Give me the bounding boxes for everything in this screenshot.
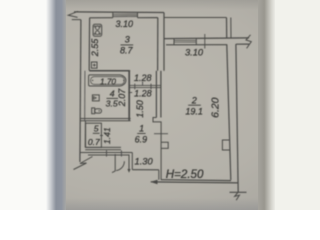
leader tick below 1.28 (142, 82, 144, 86)
svg-text:1.28: 1.28 (134, 73, 152, 83)
wall: room5 bottom lower line (85, 149, 121, 151)
svg-text:2.07: 2.07 (117, 88, 127, 108)
wall: room5 left inner (84, 121, 86, 148)
window room2 jamb right (195, 39, 197, 45)
svg-text:1.30: 1.30 (135, 157, 154, 167)
white margin and dark page-edge band left (0, 0, 48, 210)
svg-text:3: 3 (125, 35, 130, 45)
bathtub (89, 75, 126, 86)
svg-text:3.10: 3.10 (185, 47, 204, 57)
break symbol bottom-left (74, 157, 93, 170)
entrance door leaf foot (112, 171, 115, 173)
room 2 fraction bar (188, 104, 201, 106)
kitchen sink (91, 62, 97, 68)
dimension tick right of room2 window (204, 34, 206, 49)
wall: top exterior outer line of kitchen (74, 11, 164, 14)
wall: room2 right inner line (227, 45, 231, 180)
break symbol top-left (68, 11, 78, 17)
wall: hall south upper line (80, 152, 132, 154)
wall: corridor divider at 1.28 (130, 84, 161, 86)
svg-text:19.1: 19.1 (185, 106, 203, 116)
stove (93, 24, 102, 36)
svg-text:1.50: 1.50 (135, 100, 145, 118)
wall: room2 top outer line (164, 37, 249, 40)
wall: bottom outer line with H leader (151, 182, 238, 183)
balcony right second line (230, 18, 232, 39)
svg-text:5: 5 (94, 124, 99, 134)
wall: bathroom bottom upper line (80, 118, 130, 120)
wall: room5 bottom upper line (85, 146, 121, 148)
wall: bathroom right (128, 71, 130, 121)
wall: left inner line bathroom section (84, 71, 86, 121)
toilet (92, 108, 102, 114)
break symbol bottom-right (230, 191, 247, 193)
washbasin (92, 95, 99, 101)
entrance door leaf (114, 154, 116, 171)
svg-text:3.10: 3.10 (116, 19, 134, 29)
balcony right outer line (226, 18, 228, 39)
wall: kitchen-room2 divider west line (157, 18, 159, 71)
svg-text:6.20: 6.20 (211, 97, 222, 117)
entrance doorway side with arrow (128, 154, 130, 170)
wall: room2 bottom inner line (161, 179, 231, 182)
entrance door swing arc (116, 161, 124, 170)
svg-text:4: 4 (110, 89, 115, 99)
svg-text:2.55: 2.55 (90, 38, 100, 58)
svg-text:1.28: 1.28 (134, 89, 152, 99)
dimension ticks on corridor divider (134, 84, 136, 90)
svg-text:1.70: 1.70 (100, 77, 116, 86)
window room2 jamb left (173, 39, 175, 45)
top edge shading (0, 0, 320, 10)
dimension tick on hall south wall left (106, 150, 108, 156)
room5 closet box (86, 123, 102, 147)
window kitchen jamb right (137, 13, 139, 18)
svg-text:1.41: 1.41 (102, 127, 112, 144)
bottom edge shading (0, 198, 320, 210)
room 3 fraction bar (121, 44, 134, 46)
tick on bathroom right wall (128, 92, 132, 94)
wall: hall bottom inner line (132, 169, 159, 171)
dimension tick on hall south wall right (120, 150, 122, 156)
svg-text:6.9: 6.9 (135, 135, 148, 145)
wall: kitchen top inner line left of window (90, 17, 113, 19)
wall: stub right of room2 outer (236, 43, 249, 45)
svg-text:0.7: 0.7 (88, 137, 101, 147)
room 1 fraction bar (137, 133, 145, 135)
room 5 fraction bar (93, 132, 100, 134)
vestibule east wall (131, 153, 133, 170)
break symbol top-right (246, 35, 251, 49)
arrowhead of H leader (150, 180, 157, 184)
wall: kitchen top inner line right of window (138, 17, 158, 19)
svg-text:H=2.50: H=2.50 (166, 168, 204, 181)
vent bump on room2 east wall (222, 140, 230, 150)
transition to white right (258, 0, 276, 210)
window room2 hatch lines (174, 39, 196, 41)
tick on room1-room2 wall (154, 133, 168, 135)
svg-text:1: 1 (139, 123, 144, 133)
room 4 fraction bar (107, 97, 119, 99)
dimension tick on room5 right wall (100, 135, 103, 137)
wall: room2 top inner line (166, 44, 227, 46)
wall: kitchen bottom (89, 70, 130, 72)
wall: kitchen-room2 divider east line (163, 13, 165, 71)
wall: hall south lower line (88, 154, 129, 156)
svg-text:2: 2 (191, 95, 197, 105)
window kitchen jamb left (112, 13, 114, 18)
window kitchen hatch lines (113, 13, 138, 15)
balcony top line (164, 17, 227, 19)
door jamb room2 west (153, 118, 161, 180)
wall: left exterior outer line (80, 20, 81, 162)
wall: room2 right outer line (236, 44, 238, 192)
vent bump on room2 west wall (161, 142, 168, 148)
wall: left exterior inner line kitchen (88, 18, 90, 71)
svg-text:8.7: 8.7 (120, 46, 134, 56)
wall: bathroom bottom lower line (80, 120, 130, 122)
white band right (275, 0, 320, 210)
